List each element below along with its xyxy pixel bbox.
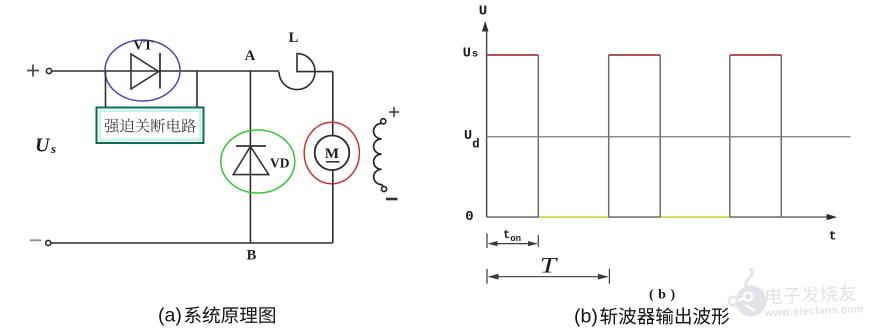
axis U (vertical) with arrow (486, 28, 488, 217)
svg-text:(b): (b) (574, 306, 598, 328)
svg-text:B: B (247, 248, 257, 264)
wire top bus from + terminal to node A and L (52, 70, 279, 72)
pulse 3 (730, 55, 782, 217)
label + of field winding (389, 107, 399, 117)
svg-text:U: U (479, 4, 487, 20)
forced turn-off circuit box (97, 108, 204, 144)
wire bottom bus (51, 242, 333, 244)
label 强迫关断电路 (104, 119, 118, 133)
svg-text:VT: VT (133, 39, 153, 54)
diode VD highlight ellipse (221, 130, 295, 193)
inductor L single-loop symbol (279, 54, 333, 90)
label - of field winding (386, 198, 398, 201)
wire right branch from L down to motor (332, 72, 334, 136)
node - terminal negative (30, 239, 41, 241)
svg-text:0: 0 (465, 209, 473, 225)
svg-text:A: A (245, 48, 256, 64)
wire branch A to B through VD (249, 71, 251, 243)
watermark text 电子发烧友 (766, 284, 856, 305)
wire motor to bottom bus (332, 170, 334, 243)
motor M highlight ellipse (304, 122, 359, 184)
svg-text:(b): (b) (649, 288, 675, 303)
svg-text:Us: Us (463, 46, 478, 61)
dimension T: ticks and double arrow (487, 269, 609, 284)
thyristor VT highlight ellipse (105, 40, 180, 101)
field winding terminal top (381, 119, 386, 124)
svg-text:t: t (829, 228, 837, 243)
zero-line yellow segments between pulses (538, 216, 608, 218)
pulse 1 (537, 55, 539, 217)
wire left lead to commutation box (105, 71, 107, 108)
watermark logo disc (729, 269, 767, 317)
svg-text:L: L (289, 30, 299, 46)
node + terminal positive (27, 65, 39, 77)
svg-text:T: T (540, 253, 559, 278)
wire right lead to commutation box (196, 71, 198, 108)
Ud horizontal line (487, 136, 851, 138)
thyristor VT symbol (triangle + cathode bar) (131, 54, 159, 89)
svg-text:M: M (325, 146, 339, 162)
watermark text www.elecfans.com (763, 303, 864, 319)
field winding terminal bottom (381, 186, 386, 191)
diode VD symbol (triangle up + bar) (236, 145, 266, 147)
pulse 2 (609, 55, 661, 217)
axis t (horizontal) with arrow (487, 216, 828, 218)
svg-text:VD: VD (270, 156, 290, 171)
motor M circle (315, 136, 350, 171)
svg-text:(a): (a) (158, 305, 182, 327)
dimension ton: ticks and double arrow (487, 233, 538, 248)
field winding coil (374, 123, 383, 186)
